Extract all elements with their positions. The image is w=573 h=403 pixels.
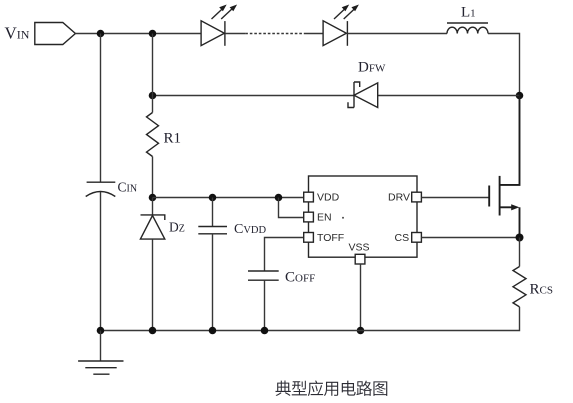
wire VDD rail	[153, 197, 304, 199]
ground	[78, 331, 123, 375]
resistor RCS	[513, 267, 526, 307]
LED D2	[323, 5, 359, 46]
connector VIN	[35, 23, 76, 45]
wire COFF to bottom rail	[264, 280, 266, 330]
wire CVDD top	[212, 198, 214, 227]
svg-text:VDD: VDD	[317, 192, 340, 204]
wire CIN to bottom rail	[100, 192, 102, 331]
svg-text:CS: CS	[395, 232, 410, 244]
node VDD rail EN junction	[275, 194, 283, 202]
LED D1	[201, 5, 237, 46]
stray dot inside IC	[342, 217, 344, 219]
pin VDD	[304, 192, 314, 202]
transistor Q1 MOSFET	[489, 96, 519, 238]
wire RCS to bottom right corner	[101, 307, 520, 331]
wire R1 column top	[152, 34, 154, 113]
wire EN elbow	[279, 198, 304, 218]
inductor L1	[447, 23, 488, 34]
capacitor CVDD	[198, 227, 227, 234]
wire Dz top	[152, 198, 154, 215]
wire top rail VIN to LED1	[75, 33, 201, 35]
pin CS	[412, 233, 422, 243]
wire Dz to bottom rail	[152, 239, 154, 330]
wire junction to RCS	[519, 238, 521, 267]
node VDD rail left junction	[149, 194, 157, 202]
pin VSS	[355, 254, 365, 264]
svg-text:VSS: VSS	[349, 242, 370, 254]
pin TOFF	[304, 233, 314, 243]
svg-text:DFW: DFW	[358, 60, 386, 76]
node top rail junction 1	[97, 30, 105, 38]
wire R1 to VDD rail	[152, 157, 154, 198]
IC U1 body	[309, 176, 418, 257]
node bottom rail junction CIN	[97, 327, 105, 335]
pin EN	[304, 212, 314, 222]
node second rail left junction	[149, 92, 157, 100]
node bottom rail junction Dz	[149, 327, 157, 335]
diode Dz zener	[140, 215, 164, 239]
node bottom rail junction COFF	[261, 327, 269, 335]
diode DFW schottky	[348, 82, 378, 108]
node CS junction	[516, 234, 524, 242]
wire dashed LED string	[225, 33, 245, 35]
node right junction at second rail	[516, 92, 524, 100]
wire L1 to top-right corner and down	[488, 34, 520, 96]
svg-text:COFF: COFF	[285, 270, 315, 286]
node VSS bottom junction	[357, 327, 365, 335]
wire VSS to bottom rail	[360, 264, 362, 331]
wire DRV to gate	[421, 197, 489, 199]
wire TOFF elbow to COFF	[265, 238, 304, 272]
svg-text:RCS: RCS	[530, 281, 553, 297]
svg-text:EN: EN	[317, 212, 332, 224]
pin DRV	[412, 192, 422, 202]
wire second rail left segment	[153, 95, 355, 97]
svg-text:DRV: DRV	[388, 192, 410, 204]
node bottom rail junction CVDD	[209, 327, 217, 335]
node top rail junction 2	[149, 30, 157, 38]
wire LED2 to L1	[347, 33, 447, 35]
node VDD rail CVDD junction	[209, 194, 217, 202]
svg-text:R1: R1	[164, 130, 182, 146]
resistor R1	[147, 113, 159, 157]
capacitor CIN	[86, 182, 116, 196]
svg-text:CVDD: CVDD	[234, 222, 267, 237]
capacitor COFF	[248, 271, 279, 280]
caption 典型应用电路图	[275, 380, 387, 396]
wire second rail right segment	[378, 95, 520, 97]
svg-text:L1: L1	[461, 5, 476, 21]
svg-text:TOFF: TOFF	[317, 232, 344, 244]
wire CVDD to bottom rail	[212, 234, 214, 331]
wire CS to junction	[421, 237, 519, 239]
wire VIN column down to CIN	[100, 34, 102, 183]
